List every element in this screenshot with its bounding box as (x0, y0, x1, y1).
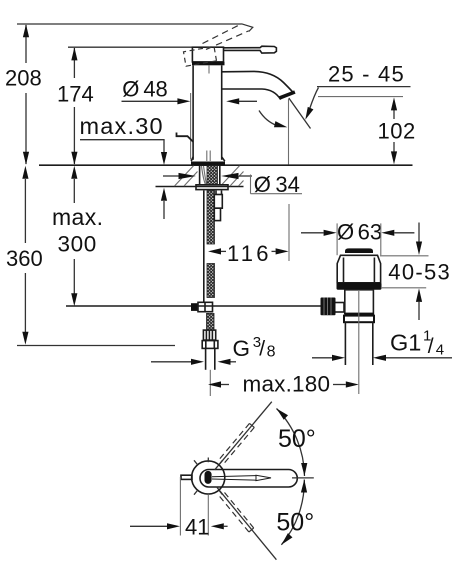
25-45 underline (317, 86, 411, 88)
drain tailpipe (344, 322, 346, 365)
aerator level reference line (318, 96, 403, 98)
drain upper body (337, 255, 380, 282)
svg-text:Ø34: Ø34 (254, 172, 300, 197)
dimension 40-53 (380, 223, 451, 321)
pop-up rod horizontal (66, 305, 321, 307)
countertop deck bottom line (156, 186, 244, 188)
upper 50-degree arc (277, 409, 305, 477)
svg-text:max.30: max.30 (80, 113, 164, 139)
aerator face (280, 92, 295, 98)
dimension 208 (5, 24, 42, 165)
dimension 41 (130, 477, 228, 540)
label Ø34 with arrows (163, 172, 302, 197)
lower diagonal line (217, 487, 277, 560)
ridged connector (203, 330, 215, 340)
drain centerline (358, 291, 360, 394)
G 3/8 nut (202, 341, 218, 349)
svg-text:/: / (259, 338, 265, 361)
svg-text:4: 4 (436, 342, 444, 359)
svg-text:G1: G1 (390, 329, 421, 355)
spout (222, 71, 294, 99)
hose hook on left of body (177, 133, 194, 142)
spout tab (top view, pointing left) (181, 475, 192, 479)
faucet body sides (192, 65, 194, 160)
cartridge hole (black pill) (205, 471, 212, 484)
drain: label Ø63 with arrows (301, 220, 414, 256)
mounting washer (196, 185, 228, 190)
drain lever port neck (334, 303, 344, 313)
centerline right of lever (292, 477, 314, 479)
dimension 116 (208, 204, 289, 266)
svg-text:116: 116 (227, 241, 272, 266)
svg-text:40-53: 40-53 (388, 260, 451, 285)
mounting stud and nut (214, 191, 222, 221)
supply pipe (205, 348, 207, 369)
countertop deck top line (39, 164, 413, 166)
flow arc arrow (259, 111, 277, 126)
svg-text:max.: max. (52, 204, 103, 230)
water stream line (289, 98, 311, 129)
svg-text:8: 8 (267, 344, 276, 361)
svg-text:/: / (428, 335, 434, 358)
cap bottom black band (192, 62, 225, 66)
svg-text:G: G (233, 336, 251, 361)
cartridge line below cap (208, 66, 210, 74)
faucet body circle (top view) (192, 461, 225, 494)
lower 50-degree arc (281, 480, 304, 545)
drain body below flange (345, 290, 374, 314)
svg-text:25 - 45: 25 - 45 (328, 62, 405, 87)
deck hatching (175, 166, 244, 186)
drain flange (337, 283, 382, 290)
dashed handle ghost (tilted cap) (184, 46, 217, 66)
supply centerline (209, 370, 211, 396)
radial ticks (194, 458, 223, 495)
reference line cap top (174) (68, 46, 192, 48)
label G1 1/4 (312, 328, 452, 361)
drain lever knob (321, 298, 336, 316)
faucet body cap (192, 47, 223, 62)
lever blade detail (top view) (212, 475, 271, 480)
svg-text:208: 208 (5, 66, 42, 91)
supply tubes entering body (206, 151, 208, 162)
dashed lever ghost lower (220, 493, 254, 533)
svg-text:41: 41 (185, 515, 209, 540)
pop-up rod vertical (203, 191, 205, 303)
dimension max.300 (52, 166, 103, 306)
dimension 174 (57, 47, 94, 164)
svg-text:300: 300 (58, 232, 97, 257)
reference line 360 bottom (17, 345, 175, 347)
reference line top (raised handle height) (17, 23, 242, 25)
solid lever handle (224, 46, 277, 53)
svg-text:174: 174 (57, 82, 94, 107)
upper diagonal line (215, 402, 272, 470)
svg-text:Ø48: Ø48 (122, 76, 168, 101)
svg-text:360: 360 (6, 246, 43, 271)
dashed raised lever (203, 24, 253, 50)
hose lower fitting (207, 313, 215, 330)
drain bottom collar (345, 313, 375, 316)
braided hose below washer (207, 191, 215, 245)
dimension 102 (378, 97, 416, 164)
lever (top view) (200, 470, 297, 488)
svg-text:max.180: max.180 (243, 372, 331, 397)
svg-text:Ø63: Ø63 (337, 220, 382, 245)
25-45 leader arrow (309, 88, 319, 112)
rod clamp (191, 303, 198, 311)
label G 3/8 (151, 334, 276, 365)
dimension 360 (6, 166, 43, 345)
mounting shank in hole (199, 166, 201, 185)
svg-text:50°: 50° (276, 509, 314, 537)
label Ø48 with arrows (122, 76, 258, 104)
faucet base flange (191, 157, 225, 161)
label max.30 (80, 113, 168, 219)
spout tip projection line (288, 99, 290, 165)
svg-text:102: 102 (378, 119, 416, 144)
dimension max.180 (208, 372, 359, 397)
drain pop-up plug cap (345, 248, 373, 253)
body left extension thin line (190, 93, 192, 160)
svg-text:50°: 50° (278, 425, 316, 453)
dashed lever ghost upper (220, 423, 254, 462)
